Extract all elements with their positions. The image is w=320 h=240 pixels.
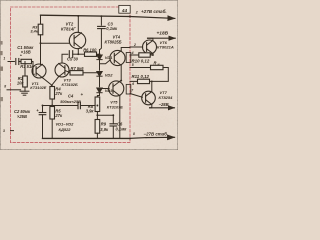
wire VT6 collector to R10 xyxy=(150,54,153,55)
label R8 3,9к xyxy=(86,104,95,114)
label C3 0,1мк xyxy=(106,22,118,32)
svg-text:КТ8025Б: КТ8025Б xyxy=(105,40,122,45)
label VT2 КТ814Г xyxy=(61,22,76,32)
label R11 0,12 xyxy=(132,74,150,79)
label VD1-VD2 КД522 xyxy=(56,121,75,131)
label R3 3,4к xyxy=(30,24,38,33)
label R7 5к6 xyxy=(71,66,85,71)
capacitor C5 xyxy=(69,51,72,58)
page edge mark c xyxy=(0,97,3,101)
svg-text:3: 3 xyxy=(3,129,5,133)
svg-text:10к: 10к xyxy=(17,80,25,85)
wire VD1 to VD2 xyxy=(99,60,101,70)
wire pin7 to VT7 base xyxy=(130,94,142,98)
wire R7 to VD2 node xyxy=(83,72,100,74)
node 1 pin label input xyxy=(3,57,5,61)
wire C5 to VT2 collector node xyxy=(73,53,85,55)
wire bottom rail xyxy=(43,137,175,138)
svg-text:VD2: VD2 xyxy=(105,73,114,78)
label -18В xyxy=(159,102,169,107)
label R1 51к xyxy=(20,64,34,69)
label R5 27к xyxy=(54,109,63,119)
svg-text:С4: С4 xyxy=(68,94,74,99)
wire +27V top rail xyxy=(41,15,175,18)
wire C1 to R1 xyxy=(19,61,21,63)
resistor R10 xyxy=(139,53,150,57)
pin box upper right border xyxy=(126,53,131,63)
wire C6 stem top xyxy=(112,115,114,124)
pin 3 mark left border xyxy=(3,129,14,133)
page number box 44 xyxy=(119,5,130,13)
svg-text:3,9к: 3,9к xyxy=(86,108,95,113)
label VT4 КТ8025Б xyxy=(105,34,122,44)
transistor VT2 xyxy=(69,32,85,48)
label R6 100 xyxy=(83,47,97,52)
svg-text:8: 8 xyxy=(133,132,135,136)
resistor R11 xyxy=(138,79,150,83)
resistor R4 xyxy=(50,87,55,100)
label R4 27к xyxy=(54,87,63,97)
svg-text:VD1: VD1 xyxy=(105,55,114,60)
transistor VT7 xyxy=(142,91,156,105)
transistor VT6 xyxy=(143,40,157,54)
svg-text:КТ3107Е: КТ3107Е xyxy=(107,104,123,109)
transistor VT4 xyxy=(110,50,125,65)
wire pin5 to Rн xyxy=(130,67,151,69)
paper mottle xyxy=(0,0,178,150)
transistor VT1 xyxy=(32,64,46,78)
wire line6 to border xyxy=(130,80,138,82)
svg-text:×16В: ×16В xyxy=(21,50,31,55)
wire R8R9 node to C6 xyxy=(97,114,113,116)
svg-text:R9: R9 xyxy=(101,122,107,127)
wire rail to C3 xyxy=(100,16,102,25)
svg-text:5: 5 xyxy=(132,63,134,67)
wire VT7 collector up xyxy=(151,81,153,91)
wire R3 to base bus xyxy=(40,35,42,65)
wire rail to R3 xyxy=(40,15,42,24)
node 4 pin label xyxy=(131,51,134,55)
svg-text:27к: 27к xyxy=(54,113,63,118)
wire VT3 base to R7 xyxy=(65,71,70,73)
resistor R9 xyxy=(95,120,100,134)
svg-text:1: 1 xyxy=(3,57,5,61)
svg-text:0,1мк: 0,1мк xyxy=(106,26,118,31)
svg-text:−27В стаб.: −27В стаб. xyxy=(144,132,169,137)
wire VT2 emitter to rail xyxy=(77,16,79,33)
svg-text:3,4к: 3,4к xyxy=(30,29,38,34)
svg-text:С5 30: С5 30 xyxy=(67,56,79,61)
label C6 0,1мк xyxy=(116,121,128,131)
capacitor C3 xyxy=(98,26,106,28)
resistor R1 xyxy=(21,59,32,63)
capacitor C4 xyxy=(78,102,80,108)
svg-text:2: 2 xyxy=(133,43,136,47)
wire common emitters to R4 xyxy=(51,85,53,86)
wire VT7 emitter to -18 xyxy=(150,104,175,107)
label VT5 КТ3107Е xyxy=(107,100,123,110)
transistor VT5 xyxy=(109,81,124,96)
wire C2 stem xyxy=(42,106,44,113)
wire VD3 to R8 jog xyxy=(97,93,99,97)
resistor Rн xyxy=(151,65,164,69)
svg-text:+: + xyxy=(81,92,84,97)
svg-text:2: 2 xyxy=(135,10,138,14)
wire VT6 emitter to +18 xyxy=(148,38,176,40)
svg-text:КТ8021А: КТ8021А xyxy=(157,45,174,50)
svg-text:44: 44 xyxy=(121,8,128,13)
label +18В xyxy=(157,31,169,37)
ground under R2 xyxy=(20,91,29,95)
svg-text:R6 100: R6 100 xyxy=(83,47,97,52)
capacitor C1 xyxy=(16,59,19,65)
node 2 pin label top xyxy=(135,10,138,14)
wire VT2 collector down xyxy=(77,48,79,54)
resistor R6 xyxy=(85,52,97,56)
svg-text:+27В стаб.: +27В стаб. xyxy=(141,8,167,14)
label R10 0,12 xyxy=(132,58,150,63)
wire C4 to R8 column xyxy=(81,105,96,107)
node 6 pin label xyxy=(132,82,134,86)
diode VD2 xyxy=(97,72,102,77)
label C2 50мк x25В xyxy=(14,108,39,119)
wire R5 to rail xyxy=(51,119,53,138)
junction dots xyxy=(40,15,154,139)
pin box lower right border xyxy=(126,84,131,94)
label +27V стаб xyxy=(141,8,167,14)
wire VT4 emitter to pin2 xyxy=(121,48,130,51)
label R2 10к xyxy=(17,76,25,86)
wire R9 to rail xyxy=(96,133,98,138)
wire R6 to VD column xyxy=(97,53,100,55)
page edge mark a xyxy=(0,41,3,55)
resistor R3 xyxy=(38,24,43,35)
wire R8 to R9 xyxy=(96,112,98,120)
svg-text:VD1−VD2: VD1−VD2 xyxy=(56,121,75,126)
node 5 pin label xyxy=(132,63,134,67)
svg-text:КТ814Г: КТ814Г xyxy=(61,26,76,31)
svg-text:×25В: ×25В xyxy=(17,114,27,119)
resistor R5 xyxy=(50,107,55,120)
label C4 500мк x25В xyxy=(60,92,83,104)
diode VD1 xyxy=(97,55,102,60)
wire pin8 to ground node xyxy=(7,89,21,91)
wire R4 to R5 xyxy=(51,99,53,107)
label VT6 КТ8021А xyxy=(157,40,174,50)
transistor VT3 xyxy=(55,63,69,77)
node 2 pin label vt6base xyxy=(133,43,136,47)
svg-text:R7 5к6: R7 5к6 xyxy=(71,66,85,71)
resistor R2 xyxy=(23,76,28,87)
label VT7 КТ8254 xyxy=(159,90,174,100)
label R9 3,9к xyxy=(100,122,109,132)
svg-text:27к: 27к xyxy=(54,91,63,96)
wire feedback node xyxy=(43,105,79,107)
wire VT5 emitter down to rail xyxy=(119,96,121,139)
diode VD3 xyxy=(97,88,102,93)
wire Rн loop to line6 xyxy=(150,68,168,82)
node 7 pin label xyxy=(131,89,134,93)
label -27В стаб xyxy=(144,132,169,137)
node 8 pin label left xyxy=(4,85,6,89)
wire pin4 R10 line xyxy=(130,54,139,56)
svg-text:R11 0,12: R11 0,12 xyxy=(132,74,150,79)
label VT3 КТ3102Б xyxy=(62,77,78,87)
wire VD to VT4 base xyxy=(100,60,111,64)
wire VT4 collector down to VT5 xyxy=(120,65,121,81)
paper background xyxy=(0,0,178,150)
label Rн xyxy=(154,60,160,66)
label C5 30 xyxy=(67,56,79,61)
pink dashed module border xyxy=(11,7,131,143)
node 8 pin label bottom xyxy=(133,132,135,136)
wire C6 to rail xyxy=(112,126,114,138)
svg-text:6: 6 xyxy=(132,82,134,86)
wire VT1 emitter to common xyxy=(42,78,51,86)
wire R1 to VT1 base xyxy=(32,62,35,75)
svg-text:R10 0,12: R10 0,12 xyxy=(132,58,150,63)
svg-text:КТ8254: КТ8254 xyxy=(159,95,174,100)
svg-text:R: R xyxy=(154,60,157,65)
label VD1 xyxy=(105,55,114,60)
wire base node to R2 xyxy=(24,62,26,77)
page edge mark b xyxy=(0,67,3,71)
svg-text:3,9к: 3,9к xyxy=(100,127,109,132)
wire C3 to VD column xyxy=(100,29,102,50)
wire input from border xyxy=(8,61,14,63)
wire column to VT5 base xyxy=(100,88,110,90)
wire pin2 to VT6 base xyxy=(130,46,143,48)
capacitor C6 xyxy=(110,124,117,126)
resistor R7 xyxy=(70,71,83,75)
wire VT3 collector up xyxy=(62,54,68,63)
wire base bus to VT2 base xyxy=(41,41,70,43)
wire VT3 emitter to common xyxy=(52,77,59,86)
svg-text:−28В: −28В xyxy=(159,102,169,107)
svg-text:КТ3102Б: КТ3102Б xyxy=(62,82,78,87)
svg-text:500мк×25В: 500мк×25В xyxy=(60,99,81,104)
svg-text:4: 4 xyxy=(131,51,134,55)
resistor R8 xyxy=(95,97,100,112)
wire R2 to ground xyxy=(24,87,26,91)
label VD3 xyxy=(105,88,114,93)
svg-text:КД522: КД522 xyxy=(59,127,72,132)
wire VD top xyxy=(99,50,101,54)
wire C2 to rail xyxy=(42,115,44,139)
label VD2 xyxy=(105,73,114,78)
label C1 50мк x16В xyxy=(17,45,34,57)
capacitor C2 xyxy=(39,113,46,115)
label VT1 КТ3102Е xyxy=(30,81,46,90)
svg-text:8: 8 xyxy=(4,85,6,89)
wire VD2 to VD3 xyxy=(99,76,101,86)
svg-text:КТ3102Е: КТ3102Е xyxy=(30,85,46,90)
svg-text:0,1мк: 0,1мк xyxy=(116,127,128,132)
paper stains xyxy=(11,20,170,131)
svg-text:+18В: +18В xyxy=(157,31,169,37)
